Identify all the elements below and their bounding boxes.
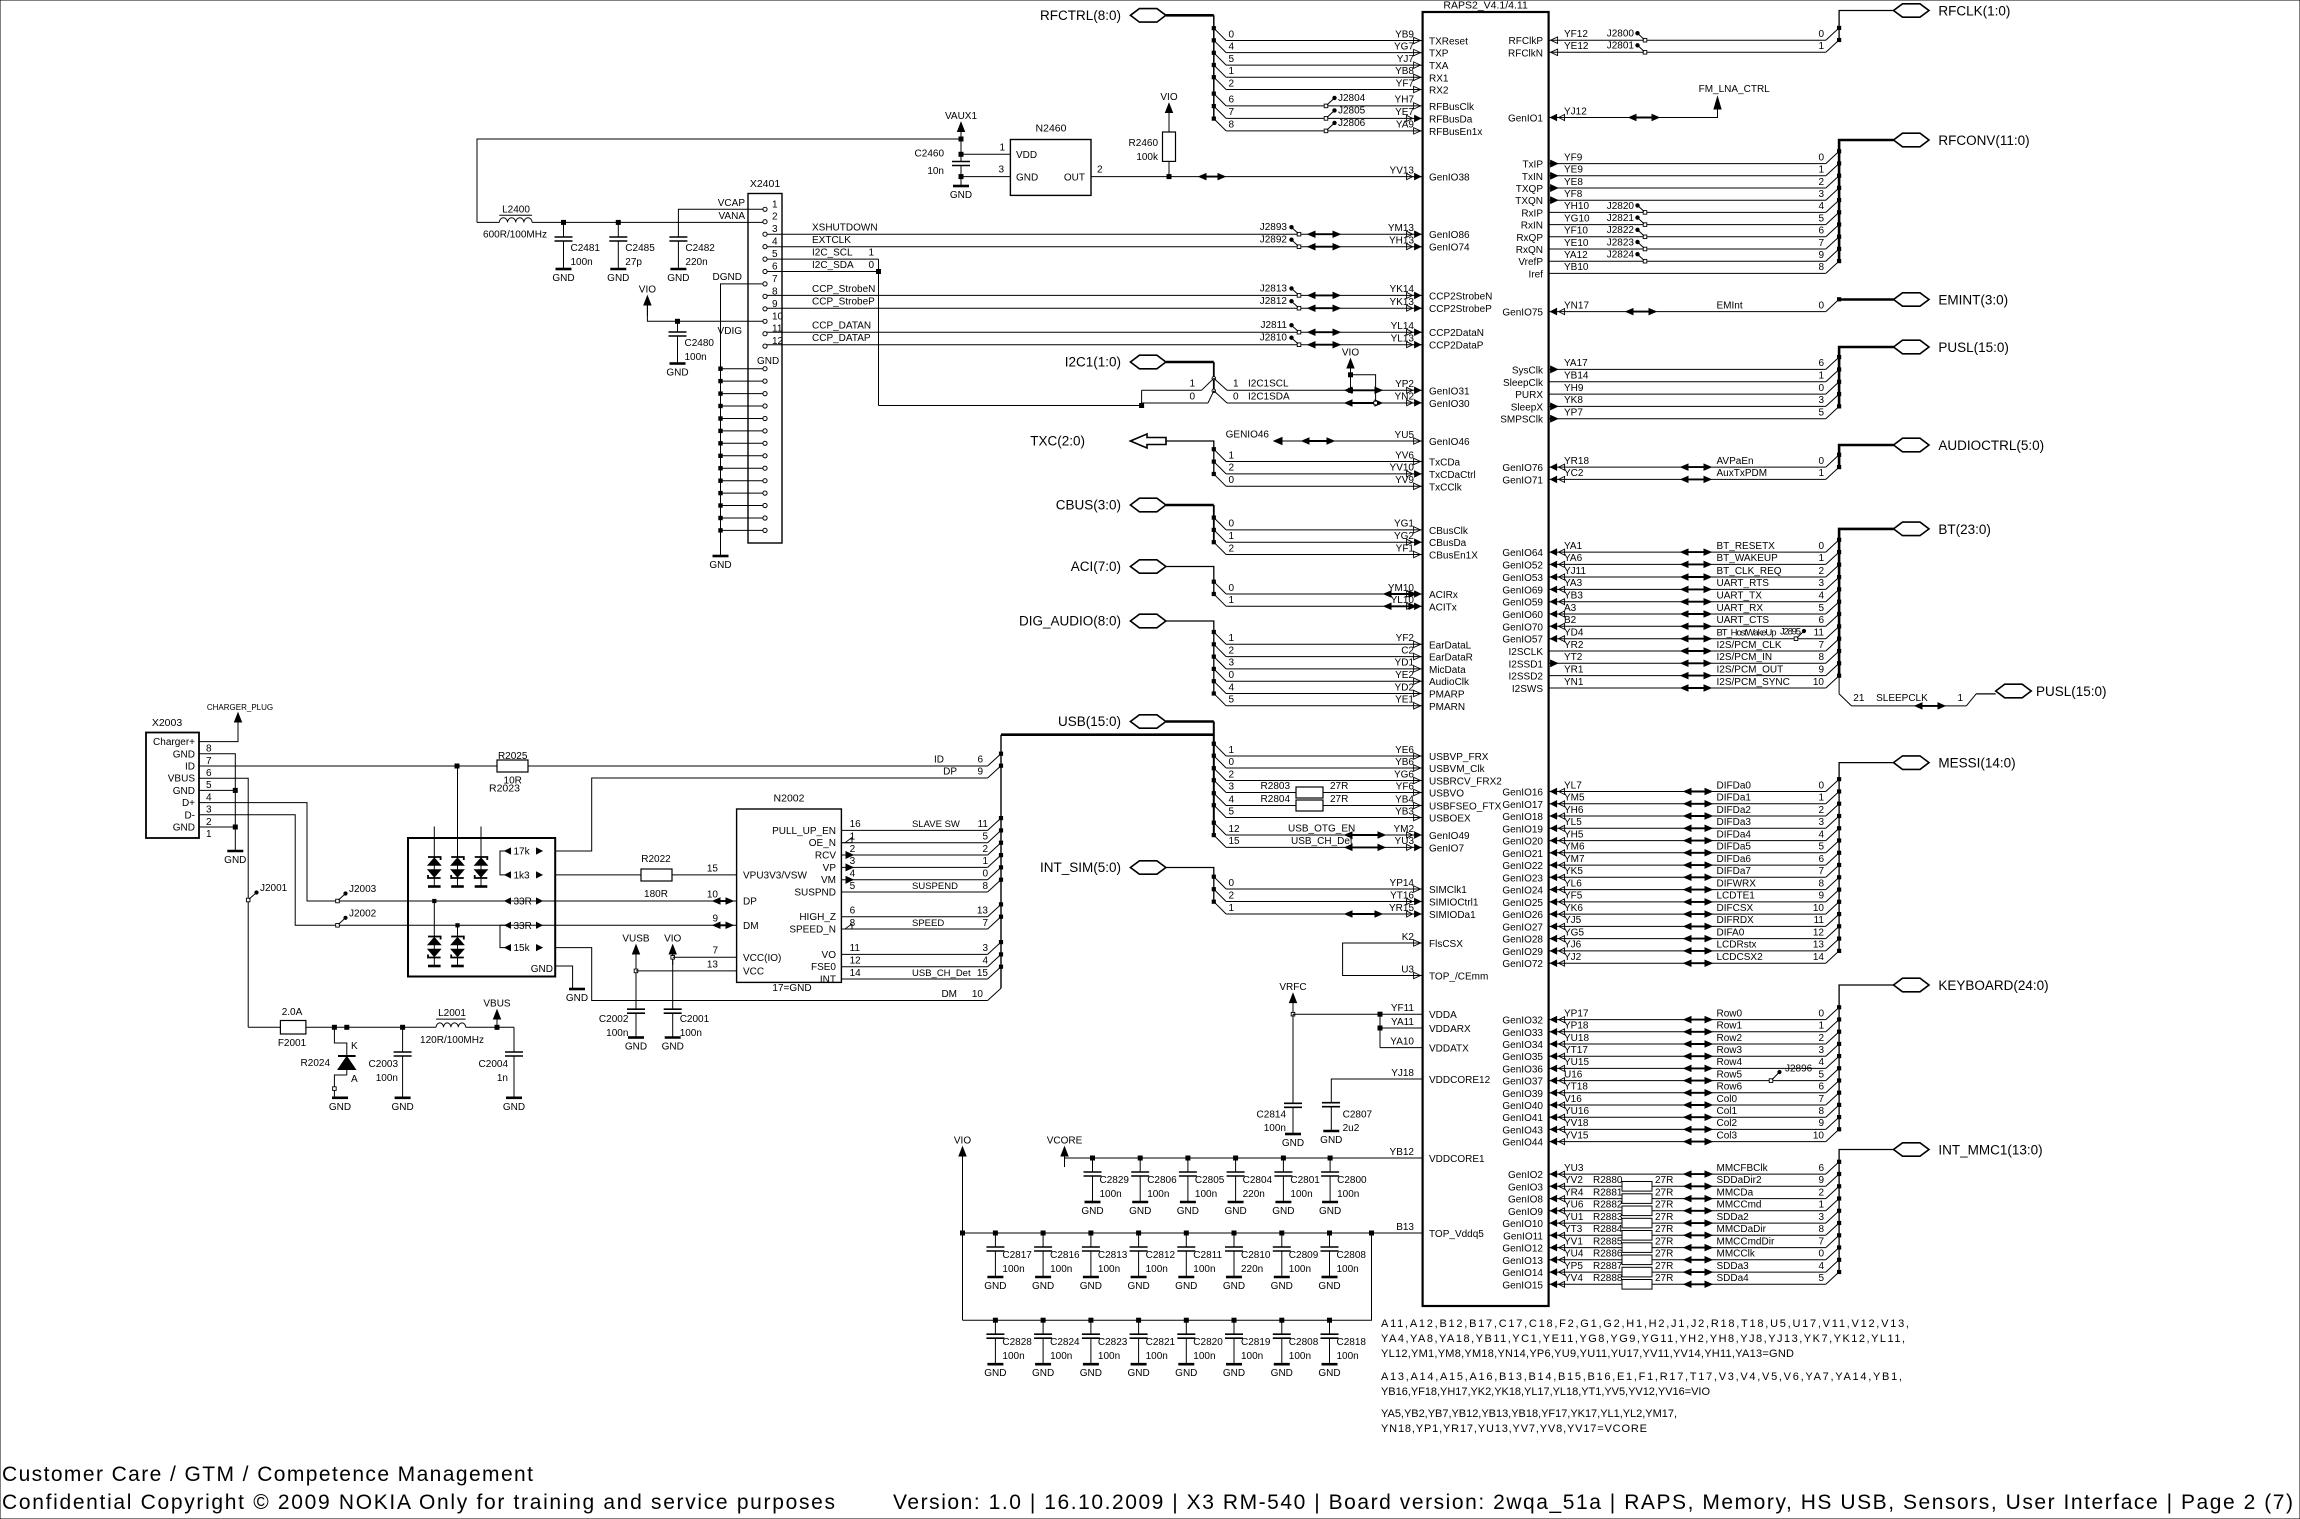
svg-text:GenIO26: GenIO26 <box>1502 910 1543 921</box>
wire D+ net <box>199 803 737 901</box>
svg-text:C2480: C2480 <box>685 338 715 349</box>
svg-text:GenIO44: GenIO44 <box>1502 1138 1543 1149</box>
svg-text:GND: GND <box>1223 1281 1245 1292</box>
X2401 pin 5 <box>763 257 767 261</box>
svg-text:0: 0 <box>1229 475 1235 486</box>
wire bus KEYBOARD bit 9 Col2 <box>1549 1128 1826 1130</box>
svg-text:DIFDa5: DIFDa5 <box>1717 842 1752 853</box>
svg-text:27R: 27R <box>1655 1224 1673 1235</box>
svg-text:0: 0 <box>1818 300 1824 311</box>
ground below R2023 <box>569 988 585 991</box>
svg-text:GenIO3: GenIO3 <box>1508 1182 1543 1193</box>
svg-text:YM2: YM2 <box>1393 824 1414 835</box>
bidir arrow I2S/PCM_SYNC <box>1684 687 1708 689</box>
svg-text:VDD: VDD <box>1016 150 1037 161</box>
svg-text:11: 11 <box>1814 628 1825 639</box>
svg-text:USBVM_Clk: USBVM_Clk <box>1429 764 1486 775</box>
svg-text:PMARP: PMARP <box>1429 690 1465 701</box>
svg-text:R2022: R2022 <box>641 854 671 865</box>
wire I2C1SDA left leg <box>1142 402 1208 404</box>
wire bus BT bit 9 I2S/PCM_OUT <box>1549 675 1826 677</box>
svg-text:YV13: YV13 <box>1390 165 1415 176</box>
svg-text:AuxTxPDM: AuxTxPDM <box>1717 468 1768 479</box>
svg-text:4: 4 <box>1818 1261 1824 1272</box>
svg-text:1: 1 <box>1818 793 1824 804</box>
svg-text:J2002: J2002 <box>349 908 377 919</box>
bidir arrow BT_CLK_REQ <box>1684 576 1708 578</box>
bus tee wire USB to N2002 side <box>1001 733 1214 736</box>
svg-text:GND: GND <box>1319 1206 1341 1217</box>
svg-text:VDDARX: VDDARX <box>1429 1024 1471 1035</box>
svg-text:GenIO38: GenIO38 <box>1429 173 1470 184</box>
svg-text:YB16,YF18,YH17,YK2,YK18,YL17,Y: YB16,YF18,YH17,YK2,YK18,YL17,YL18,YT1,YV… <box>1381 1386 1710 1398</box>
bidir arrow I2S/PCM_IN <box>1684 662 1708 664</box>
svg-text:SIMIODa1: SIMIODa1 <box>1429 910 1476 921</box>
bus feed wire DIG_AUDIO <box>1166 621 1214 694</box>
bus connector USB <box>1130 715 1166 728</box>
svg-text:100n: 100n <box>685 352 707 363</box>
X2401 pin 4 <box>763 245 767 249</box>
svg-text:SPEED_N: SPEED_N <box>789 925 836 936</box>
wire N2460 VDD to VAUX1 <box>961 153 1010 155</box>
svg-text:FM_LNA_CTRL: FM_LNA_CTRL <box>1699 84 1771 95</box>
node I2C1 rake apex SDA <box>1212 389 1216 393</box>
svg-text:4: 4 <box>1229 682 1235 693</box>
wire bus KEYBOARD bit 10 Col3 <box>1549 1141 1826 1143</box>
svg-text:N2460: N2460 <box>1036 123 1067 135</box>
bus connector KEYBOARD <box>1894 978 1930 992</box>
jumper J2824 <box>1643 259 1647 263</box>
wire DIG_AUDIO bit 2 <box>1214 644 1226 656</box>
svg-text:RFBusClk: RFBusClk <box>1429 102 1475 113</box>
svg-text:9: 9 <box>1818 250 1824 261</box>
X2401 GND pin 5 <box>763 416 767 420</box>
svg-text:R2882: R2882 <box>1593 1200 1623 1211</box>
bus feed wire USB right <box>1166 720 1214 723</box>
svg-text:8: 8 <box>982 881 988 892</box>
wire bus KEYBOARD bit 0 Row0 <box>1549 1019 1826 1021</box>
svg-text:10: 10 <box>1813 903 1825 914</box>
bidir arrow AuxTxPDM <box>1684 478 1708 480</box>
wire VAUX1 vertical <box>960 131 962 154</box>
svg-text:DIG_AUDIO(8:0): DIG_AUDIO(8:0) <box>1019 614 1121 629</box>
svg-text:YU16: YU16 <box>1564 1106 1589 1117</box>
svg-text:EarDataL: EarDataL <box>1429 640 1472 651</box>
svg-text:DM: DM <box>941 989 957 1000</box>
svg-text:YA3: YA3 <box>1564 578 1583 589</box>
capacitor C2812 100n <box>1137 1231 1141 1235</box>
svg-text:C2818: C2818 <box>1337 1337 1367 1348</box>
svg-text:DIFDa0: DIFDa0 <box>1717 780 1752 791</box>
svg-text:DIFCSX: DIFCSX <box>1717 903 1754 914</box>
svg-text:YF10: YF10 <box>1564 226 1588 237</box>
svg-text:TxCDaCtrl: TxCDaCtrl <box>1429 470 1476 481</box>
svg-text:220n: 220n <box>1241 1264 1263 1275</box>
jumper J2820 <box>1643 211 1647 215</box>
svg-text:YL5: YL5 <box>1564 817 1582 828</box>
svg-text:GND: GND <box>1272 1206 1294 1217</box>
svg-text:7: 7 <box>772 274 778 285</box>
svg-text:EXTCLK: EXTCLK <box>812 235 851 246</box>
svg-text:GenIO86: GenIO86 <box>1429 230 1470 241</box>
svg-text:YG6: YG6 <box>1394 769 1414 780</box>
wire VCCIO to N2002 <box>673 956 737 958</box>
svg-text:R2884: R2884 <box>1593 1224 1623 1235</box>
svg-text:YU4: YU4 <box>1564 1249 1584 1260</box>
svg-text:RxIP: RxIP <box>1521 208 1543 219</box>
svg-text:6: 6 <box>1229 95 1235 106</box>
svg-text:C2481: C2481 <box>571 243 601 254</box>
svg-text:R2460: R2460 <box>1129 138 1159 149</box>
svg-text:1: 1 <box>1229 531 1235 542</box>
jumper J2001 <box>246 898 250 902</box>
svg-text:YN17: YN17 <box>1564 300 1589 311</box>
bus connector I2C1 <box>1130 355 1166 369</box>
wire bus MESSI bit 8 DIFWRX <box>1549 889 1826 891</box>
wire bus RFCONV bit 8 <box>1549 272 1826 274</box>
svg-text:GenIO27: GenIO27 <box>1502 922 1543 933</box>
svg-text:GenIO69: GenIO69 <box>1502 585 1543 596</box>
bidir arrow DIFDa6 <box>1687 864 1709 866</box>
wire bus RFCLK bit 0 <box>1549 39 1826 41</box>
svg-text:33R: 33R <box>514 921 532 932</box>
bidir arrow MMCCmd <box>1687 1210 1709 1212</box>
svg-text:2: 2 <box>1229 543 1235 554</box>
svg-text:J2003: J2003 <box>349 884 377 895</box>
svg-text:GenIO1: GenIO1 <box>1508 114 1543 125</box>
power symbol FM_LNA_CTRL <box>1714 97 1721 109</box>
svg-text:YP2: YP2 <box>1395 379 1414 390</box>
svg-text:YJ2: YJ2 <box>1564 952 1582 963</box>
wire SLEEPCLK <box>1838 676 1840 694</box>
svg-text:YV15: YV15 <box>1564 1130 1589 1141</box>
wire bus MESSI bit 14 LCDCSX2 <box>1549 962 1826 964</box>
svg-text:CBUS(3:0): CBUS(3:0) <box>1056 498 1121 513</box>
svg-text:TOP_/CEmm: TOP_/CEmm <box>1429 972 1488 983</box>
wire bus MESSI bit 10 DIFCSX <box>1549 913 1826 915</box>
wire INT_SIM bit 2 <box>1214 889 1226 901</box>
svg-text:GND: GND <box>1175 1281 1197 1292</box>
svg-text:3: 3 <box>1818 578 1824 589</box>
svg-text:R2804: R2804 <box>1261 794 1291 805</box>
node VAUX1 top wire junction <box>959 137 963 141</box>
svg-text:YH5: YH5 <box>1564 829 1584 840</box>
bus connector TXC <box>1130 434 1166 448</box>
wire USB bit 3 to IC <box>1214 780 1226 792</box>
bidir arrow DIFDa4 <box>1687 840 1709 842</box>
svg-text:27R: 27R <box>1655 1200 1673 1211</box>
svg-text:YF6: YF6 <box>1396 781 1415 792</box>
svg-text:VDDA: VDDA <box>1429 1010 1457 1021</box>
wire bus PUSL bit 0 <box>1549 393 1826 395</box>
svg-text:9: 9 <box>772 299 778 310</box>
ground below X2401 <box>713 555 729 558</box>
bidir arrow DIFWRX <box>1687 889 1709 891</box>
svg-text:YP7: YP7 <box>1564 408 1583 419</box>
bidir arrow SDDa3 <box>1687 1271 1709 1273</box>
wire bus MESSI bit 5 DIFDa5 <box>1549 852 1826 854</box>
svg-text:YF1: YF1 <box>1396 543 1415 554</box>
svg-text:U3: U3 <box>1401 964 1414 975</box>
svg-text:14: 14 <box>1813 952 1825 963</box>
svg-text:TxIN: TxIN <box>1522 172 1543 183</box>
svg-text:J2822: J2822 <box>1607 225 1635 236</box>
svg-text:GenIO49: GenIO49 <box>1429 831 1470 842</box>
svg-text:PULL_UP_EN: PULL_UP_EN <box>772 826 836 837</box>
svg-text:VIO: VIO <box>1160 92 1177 103</box>
svg-text:GND: GND <box>1129 1206 1151 1217</box>
svg-text:0: 0 <box>1818 456 1824 467</box>
svg-text:TXQP: TXQP <box>1516 184 1544 195</box>
svg-text:TxCDa: TxCDa <box>1429 458 1461 469</box>
svg-text:R2886: R2886 <box>1593 1249 1623 1260</box>
svg-text:CCP2StrobeP: CCP2StrobeP <box>1429 304 1492 315</box>
jumper J2812 <box>1297 306 1301 310</box>
jumper J2821 <box>1643 223 1647 227</box>
wire bus INT_MMC1 bit 2 MMCDa <box>1549 1198 1826 1200</box>
svg-text:SysClk: SysClk <box>1512 365 1544 376</box>
svg-text:YG10: YG10 <box>1564 213 1590 224</box>
svg-text:27R: 27R <box>1330 794 1348 805</box>
jumper J2892 <box>1297 245 1301 249</box>
svg-text:0: 0 <box>1229 29 1235 40</box>
bidir arrow Row3 <box>1687 1055 1709 1057</box>
wire I2C1SCL to GenIO31 <box>1214 378 1227 390</box>
ground below C2001 <box>665 1036 681 1039</box>
svg-text:J2800: J2800 <box>1607 29 1635 40</box>
ground below R2024 <box>332 1097 348 1100</box>
svg-text:GenIO11: GenIO11 <box>1503 1231 1543 1242</box>
svg-text:CCP2DataN: CCP2DataN <box>1429 328 1484 339</box>
svg-text:GenIO64: GenIO64 <box>1502 548 1543 559</box>
svg-text:C2001: C2001 <box>680 1014 710 1025</box>
bidir arrow Row1 <box>1687 1031 1709 1033</box>
svg-text:MMCCmdDir: MMCCmdDir <box>1717 1236 1775 1247</box>
X2401 pin 1 <box>763 207 767 211</box>
svg-text:I2SSD1: I2SSD1 <box>1509 659 1544 670</box>
svg-text:8: 8 <box>1818 878 1824 889</box>
capacitor C2819 100n <box>1232 1318 1236 1322</box>
wire RFCTRL bit 4 <box>1214 40 1226 52</box>
bidir arrow Col2 <box>1687 1128 1709 1130</box>
wire bus BT bit 10 I2S/PCM_SYNC <box>1549 687 1826 689</box>
wire bus KEYBOARD bit 2 Row2 <box>1549 1043 1826 1045</box>
power symbol VIO for VDIG <box>644 296 651 305</box>
bidir arrow DIFDa2 <box>1687 815 1709 817</box>
svg-text:R2887: R2887 <box>1593 1261 1623 1272</box>
svg-text:GenIO32: GenIO32 <box>1502 1016 1543 1027</box>
bidir arrow SDDaDir2 <box>1687 1185 1709 1187</box>
svg-text:VIO: VIO <box>1342 348 1359 359</box>
svg-text:220n: 220n <box>1243 1189 1265 1200</box>
svg-text:RCV: RCV <box>815 851 836 862</box>
svg-text:GenIO29: GenIO29 <box>1502 947 1543 958</box>
svg-text:3: 3 <box>982 943 988 954</box>
X2401 GND pin 8 <box>763 454 767 458</box>
wire bus INT_MMC1 bit 7 MMCCmdDir <box>1549 1247 1826 1249</box>
wire bus BT bit 2 BT_CLK_REQ <box>1549 576 1826 578</box>
R2023 value 1k3 <box>505 872 511 878</box>
svg-text:0: 0 <box>1229 757 1235 768</box>
svg-text:100n: 100n <box>1337 1351 1359 1362</box>
svg-text:6: 6 <box>1818 1082 1824 1093</box>
svg-text:GenIO37: GenIO37 <box>1502 1077 1543 1088</box>
svg-text:R2881: R2881 <box>1593 1187 1623 1198</box>
svg-text:5: 5 <box>1818 842 1824 853</box>
power symbol VAUX1 <box>958 123 965 132</box>
svg-text:GND: GND <box>662 1042 684 1053</box>
svg-text:RFBusDa: RFBusDa <box>1429 114 1473 125</box>
bidir arrow DIFDa0 <box>1687 791 1709 793</box>
svg-text:YT17: YT17 <box>1564 1045 1588 1056</box>
wire bus BT bit 5 UART_RX <box>1549 613 1826 615</box>
svg-text:C2817: C2817 <box>1002 1250 1032 1261</box>
R2023 value 33R upper <box>505 898 511 904</box>
svg-text:C2814: C2814 <box>1257 1110 1287 1121</box>
capacitor C2811 100n <box>1184 1231 1188 1235</box>
svg-text:0: 0 <box>1818 780 1824 791</box>
N2002 RCV out arrow <box>846 852 853 858</box>
wire USB bit 12 to IC <box>1214 823 1226 835</box>
svg-text:K: K <box>351 1041 358 1052</box>
connector X2401 body <box>748 194 782 544</box>
svg-text:YD1: YD1 <box>1395 658 1415 669</box>
svg-text:MMCClk: MMCClk <box>1717 1249 1756 1260</box>
wire bus RFCONV bit 5 <box>1549 224 1826 226</box>
wire VIO vertical <box>672 953 674 1009</box>
svg-text:100n: 100n <box>1289 1264 1311 1275</box>
jumper J2813 <box>1297 294 1301 298</box>
svg-text:YH9: YH9 <box>1564 383 1584 394</box>
svg-text:C2819: C2819 <box>1241 1337 1271 1348</box>
bus feed wire RFCTRL <box>1166 14 1214 17</box>
svg-text:7: 7 <box>1818 238 1824 249</box>
svg-text:J2895: J2895 <box>1780 626 1801 637</box>
svg-text:17k: 17k <box>514 847 531 858</box>
wire bus AUDIOCTRL bit 0 AVPaEn <box>1549 466 1826 468</box>
svg-text:GenIO34: GenIO34 <box>1502 1040 1543 1051</box>
svg-text:1: 1 <box>1233 379 1239 390</box>
bus feed wire INT_SIM <box>1166 868 1214 902</box>
svg-text:180R: 180R <box>644 889 668 900</box>
svg-text:10: 10 <box>1813 1130 1825 1141</box>
wire VIO vertical to cap rows <box>962 1155 964 1320</box>
svg-text:TXP: TXP <box>1429 49 1449 60</box>
bidir arrow SIMIODa1 <box>1348 913 1379 915</box>
svg-text:4: 4 <box>1818 829 1824 840</box>
bus connector RFCLK <box>1894 4 1930 17</box>
svg-text:SDDa2: SDDa2 <box>1717 1212 1750 1223</box>
svg-text:8: 8 <box>1818 1106 1824 1117</box>
svg-text:12: 12 <box>1813 927 1825 938</box>
svg-text:C2: C2 <box>1401 645 1414 656</box>
bidir arrow UART_TX <box>1684 601 1708 603</box>
wire bus MESSI bit 3 DIFDa3 <box>1549 827 1826 829</box>
wire VIO pullup branch to SDA <box>1351 375 1376 403</box>
svg-text:GenIO21: GenIO21 <box>1502 849 1543 860</box>
bidir arrow ACITx <box>1387 605 1413 607</box>
svg-text:10: 10 <box>707 889 719 900</box>
svg-text:5: 5 <box>1818 1273 1824 1284</box>
svg-text:1: 1 <box>1818 1021 1824 1032</box>
svg-text:CHARGER_PLUG: CHARGER_PLUG <box>207 703 273 712</box>
bidir arrow DIFA0 <box>1687 938 1709 940</box>
wire XSHUTDOWN net <box>766 233 1423 235</box>
svg-text:7: 7 <box>206 756 212 767</box>
bus connector MESSI <box>1894 756 1930 770</box>
bus connector AUDIOCTRL <box>1894 438 1930 452</box>
svg-text:GND: GND <box>173 823 195 834</box>
svg-text:I2C1(1:0): I2C1(1:0) <box>1065 355 1121 370</box>
svg-text:5: 5 <box>1818 1069 1824 1080</box>
svg-text:0: 0 <box>1189 391 1195 402</box>
wire VDIG <box>647 304 762 321</box>
svg-text:GenIO40: GenIO40 <box>1502 1101 1543 1112</box>
svg-text:TXC(2:0): TXC(2:0) <box>1030 434 1085 449</box>
svg-text:2: 2 <box>1818 805 1824 816</box>
svg-text:CCP_DATAN: CCP_DATAN <box>812 321 871 332</box>
bus connector PUSL second <box>1996 684 2032 698</box>
svg-text:PURX: PURX <box>1515 390 1543 401</box>
svg-text:2: 2 <box>772 212 778 223</box>
svg-text:C2004: C2004 <box>479 1059 509 1070</box>
bidir arrow DP at N2002 <box>716 900 730 902</box>
wire ID net <box>199 765 497 767</box>
svg-text:YT16: YT16 <box>1390 890 1414 901</box>
svg-text:C2821: C2821 <box>1146 1337 1176 1348</box>
svg-text:YE6: YE6 <box>1395 745 1414 756</box>
svg-text:6: 6 <box>1818 615 1824 626</box>
svg-text:F2001: F2001 <box>278 1038 307 1049</box>
bidir arrow I2S/PCM_OUT <box>1684 675 1708 677</box>
capacitor C2824 100n <box>1041 1318 1045 1322</box>
wire VDDATX stub <box>1380 1047 1423 1049</box>
svg-text:GenIO23: GenIO23 <box>1502 873 1543 884</box>
wire I2C1SDA to GenIO30 <box>1214 391 1227 403</box>
svg-text:11: 11 <box>978 819 989 830</box>
svg-text:CBusEn1X: CBusEn1X <box>1429 551 1478 562</box>
bidir arrow LCDRstx <box>1687 950 1709 952</box>
resistor network R2023 body <box>408 838 555 977</box>
svg-text:100n: 100n <box>571 257 593 268</box>
svg-text:C2816: C2816 <box>1050 1250 1080 1261</box>
svg-text:100k: 100k <box>1136 152 1159 163</box>
svg-text:J2001: J2001 <box>260 883 288 894</box>
svg-text:GenIO8: GenIO8 <box>1508 1195 1543 1206</box>
wire bus INT_MMC1 bit 4 SDDa3 <box>1549 1271 1826 1273</box>
svg-text:I2C_SCL: I2C_SCL <box>812 248 853 259</box>
svg-text:100n: 100n <box>1098 1351 1120 1362</box>
svg-text:GenIO28: GenIO28 <box>1502 935 1543 946</box>
bidir arrow GenIO7 <box>1348 846 1382 848</box>
svg-text:27R: 27R <box>1655 1212 1673 1223</box>
svg-text:GenIO7: GenIO7 <box>1429 843 1464 854</box>
svg-text:GenIO52: GenIO52 <box>1502 560 1543 571</box>
svg-text:GENIO46: GENIO46 <box>1226 429 1270 440</box>
svg-text:Row2: Row2 <box>1717 1033 1743 1044</box>
svg-text:DIFDa4: DIFDa4 <box>1717 829 1752 840</box>
wire bus BT bit 3 UART_RTS <box>1549 588 1826 590</box>
svg-text:DIFDa7: DIFDa7 <box>1717 866 1752 877</box>
capacitor C2806 100n <box>1138 1156 1142 1160</box>
bidir arrow Col1 <box>1687 1116 1709 1118</box>
svg-text:GND: GND <box>173 786 195 797</box>
X2401 pin 12 <box>763 344 767 348</box>
svg-text:GenIO72: GenIO72 <box>1502 959 1543 970</box>
svg-text:GND: GND <box>1318 1368 1340 1379</box>
svg-text:GND: GND <box>984 1368 1006 1379</box>
svg-text:FlsCSX: FlsCSX <box>1429 939 1463 950</box>
